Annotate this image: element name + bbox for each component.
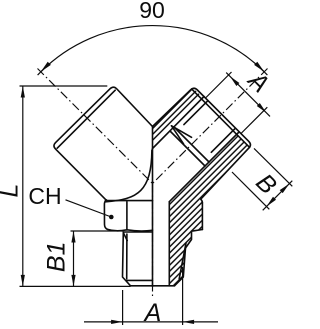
- angle dimension arc 90: [41, 26, 264, 72]
- A bottom right extension line: [182, 267, 184, 325]
- thread top edge: [123, 231, 152, 233]
- hex section outer edge: [201, 203, 203, 230]
- vertical centerline: [152, 184, 154, 300]
- hex facet edge: [126, 202, 128, 230]
- L arrow up: [21, 86, 25, 98]
- right arm bore upper second line: [184, 101, 208, 125]
- svg-text:CH: CH: [28, 183, 61, 209]
- hatch region lower body and bottom thread section: [169, 134, 250, 286]
- hatch region upper band of right arm: [153, 88, 201, 145]
- svg-text:L: L: [0, 184, 24, 198]
- bottom extension line L and B1: [20, 285, 131, 287]
- arc overshoot right: [261, 68, 268, 75]
- body blend curve to hex: [106, 150, 152, 202]
- hex to thread step: [186, 230, 203, 249]
- thread root line left: [126, 234, 128, 279]
- svg-text:90: 90: [139, 0, 165, 23]
- B1 dimension line: [73, 231, 75, 286]
- bottom edge of thread: [131, 285, 175, 287]
- arc arrow left: [41, 62, 51, 72]
- svg-text:A: A: [143, 299, 162, 327]
- A bottom arrow right: [183, 320, 195, 324]
- A bottom arrow left: [111, 320, 123, 324]
- right arm bore lower second line: [211, 128, 235, 152]
- A top arrow lower: [257, 103, 267, 113]
- CH leader dot: [109, 215, 114, 220]
- A bottom left extension line: [122, 290, 124, 325]
- B1 arrow down: [71, 275, 75, 287]
- bottom thread left outline: [123, 232, 131, 286]
- B1 top extension line: [71, 230, 124, 232]
- B arrow lower: [267, 197, 277, 207]
- chamfer line on thread tip: [127, 279, 153, 281]
- hex bottom arcs: [108, 229, 153, 231]
- A bottom dimension line: [84, 321, 218, 323]
- thread shoulder line 1: [174, 127, 209, 162]
- B extension line 1 from end face: [254, 148, 292, 186]
- B extension line 2: [232, 172, 269, 209]
- A top extension line 1: [206, 72, 232, 98]
- B arrow upper: [280, 184, 290, 194]
- hex top edge: [106, 200, 153, 202]
- L top extension line: [20, 85, 108, 87]
- bore of bottom hole (section): [168, 202, 170, 286]
- arc overshoot left: [38, 68, 45, 75]
- CH leader line: [66, 200, 112, 217]
- drill cone line 1: [172, 126, 192, 138]
- right arm outline: [153, 88, 251, 203]
- section edge vertical line: [152, 127, 154, 287]
- arc arrow right: [254, 62, 264, 72]
- left arm end face inner line: [57, 90, 115, 148]
- left arm centerline: [38, 69, 153, 184]
- thread start diagonal: [123, 233, 127, 241]
- thread root line right section: [179, 243, 186, 279]
- right arm bore upper line: [153, 97, 205, 149]
- drill cone line 2: [172, 126, 184, 144]
- left arm outline: [54, 87, 153, 200]
- centerlines: [38, 69, 268, 300]
- A top dimension line: [226, 73, 270, 117]
- right arm bore lower line: [169, 132, 239, 202]
- right arm end face inner line: [192, 89, 250, 147]
- right arm centerline: [153, 69, 268, 184]
- hex left corner edge: [104, 200, 107, 229]
- B1 arrow up: [71, 231, 75, 243]
- thread shoulder line 2: [170, 131, 205, 166]
- L dimension line: [22, 86, 24, 286]
- bottom thread right outline tapered: [175, 248, 186, 286]
- A top extension line 2: [241, 107, 267, 133]
- svg-text:B1: B1: [43, 242, 71, 273]
- L arrow down: [21, 275, 25, 287]
- B dimension line: [263, 181, 293, 211]
- A top arrow upper: [230, 76, 240, 86]
